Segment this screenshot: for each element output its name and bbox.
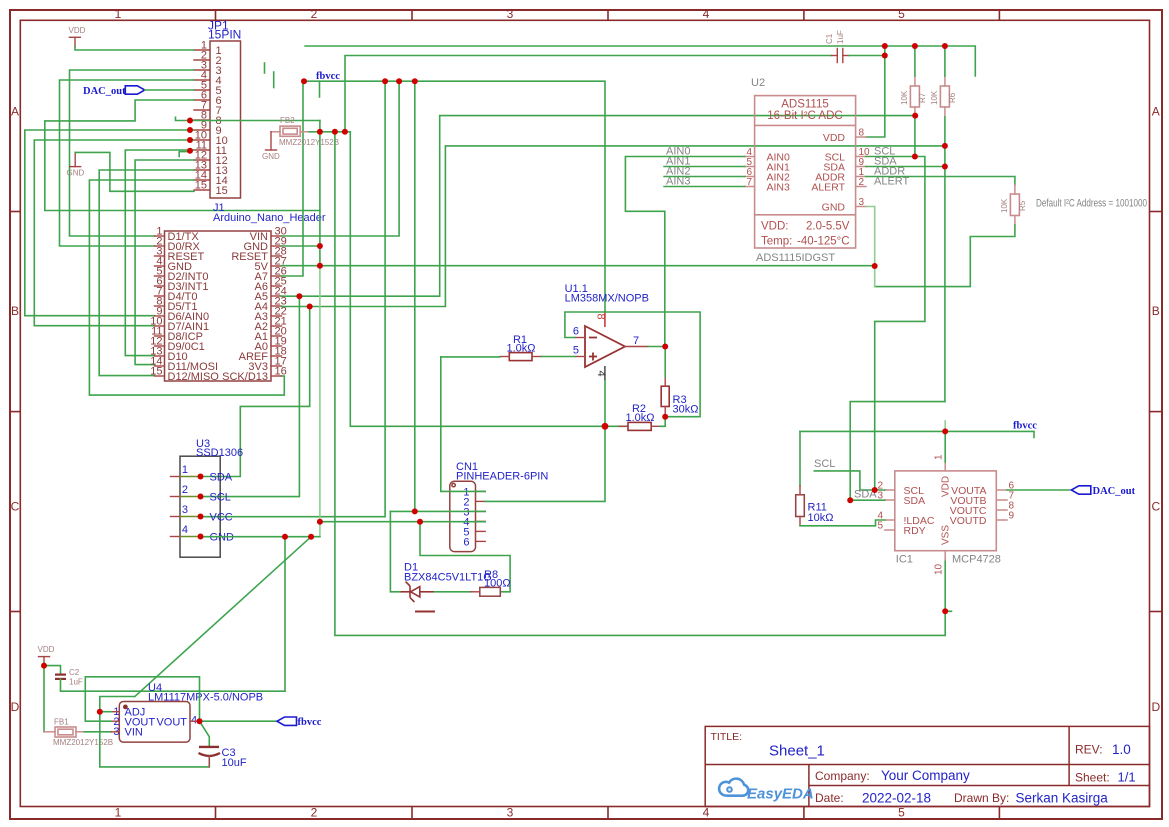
wire JP1 pin6 to GND bus xyxy=(45,100,320,211)
junction GND vertical to CN1 pin4 row xyxy=(317,519,323,525)
IC1 pin10 bottom stub xyxy=(934,551,946,575)
wire R7 top to VDD rail xyxy=(914,46,916,76)
svg-text:6: 6 xyxy=(573,326,579,338)
svg-text:VDD: VDD xyxy=(38,645,55,654)
junction fbvcc IC1 VDD xyxy=(942,428,948,434)
op-amp pin 4 stub xyxy=(604,366,606,380)
net port DAC_out (JP1 pin5) xyxy=(83,86,145,97)
capacitor C2 1uF xyxy=(55,668,83,687)
svg-text:3: 3 xyxy=(859,197,865,208)
wire CN1 pin3 row xyxy=(390,510,485,512)
wire opamp output to R3 top xyxy=(664,347,666,378)
svg-text:B: B xyxy=(11,304,19,318)
svg-text:ADS1115IDGST: ADS1115IDGST xyxy=(756,252,835,264)
junction C1 to VDD vertical xyxy=(882,53,888,59)
capacitor C3 10uF polarized xyxy=(199,747,247,769)
junction U3 GND to C2 branch xyxy=(282,534,288,540)
svg-text:5: 5 xyxy=(573,345,579,357)
wire JP1 pin12 to J1 pin14 (D11/MOSI) xyxy=(135,160,194,365)
svg-text:SDA: SDA xyxy=(904,495,926,507)
svg-text:fbvcc: fbvcc xyxy=(1013,421,1037,432)
svg-text:4: 4 xyxy=(595,371,607,377)
svg-text:10K: 10K xyxy=(930,90,939,105)
stub wire fragment xyxy=(273,72,275,88)
junction R6 VDD rail xyxy=(942,43,948,49)
junction FB2/C1 rail branch xyxy=(342,129,348,135)
wire R6 bottom to SDA row xyxy=(944,117,946,402)
wire C2 bottom to U3 GND branch xyxy=(61,679,286,691)
svg-text:1.0kΩ: 1.0kΩ xyxy=(506,343,535,355)
wire GND vertical x=320 lower xyxy=(319,266,321,537)
svg-text:15: 15 xyxy=(216,185,228,197)
resistor R8 100Ω xyxy=(471,569,511,596)
svg-text:-40-125°C: -40-125°C xyxy=(797,236,850,248)
U2 left pins AIN0-AIN3 xyxy=(666,146,790,194)
svg-text:Company:: Company: xyxy=(815,769,870,783)
junction xyxy=(198,474,204,480)
resistor R1 1.0kΩ xyxy=(500,334,542,361)
svg-text:EasyEDA: EasyEDA xyxy=(747,786,814,803)
wire AIN0 to opamp output xyxy=(625,157,744,347)
junction VDD rail xyxy=(882,43,888,49)
svg-text:LM358MX/NOPB: LM358MX/NOPB xyxy=(565,293,649,305)
svg-text:1.0: 1.0 xyxy=(1112,742,1131,757)
wire R11 bottom to IC1 LDAC xyxy=(800,520,885,526)
svg-text:C2: C2 xyxy=(69,668,80,677)
junction R3 bottom feedback xyxy=(662,414,668,420)
junction xyxy=(198,514,204,520)
wire U4 feedback loop pin2-pin4 xyxy=(85,677,199,721)
wire JP1 pin3 to J1 pin1 (D1/TX) xyxy=(70,70,195,236)
wire VDD down to FB1 xyxy=(43,662,45,732)
svg-text:16-Bit I²C ADC: 16-Bit I²C ADC xyxy=(767,110,842,122)
svg-text:VIN: VIN xyxy=(125,727,143,739)
svg-text:3: 3 xyxy=(507,806,514,820)
wire J1 5V(27) long line xyxy=(282,265,875,267)
wire GND long bus x=335 to bottom rail xyxy=(335,132,945,636)
svg-text:10kΩ: 10kΩ xyxy=(808,512,834,524)
IC1 pin1 top stub xyxy=(934,454,946,471)
svg-text:15PIN: 15PIN xyxy=(208,28,241,42)
svg-text:4: 4 xyxy=(182,524,188,536)
wire fbvcc to U3 VCC xyxy=(201,81,386,517)
wire opamp output to junction xyxy=(648,346,665,348)
svg-text:16: 16 xyxy=(275,366,287,378)
svg-text:MMZ2012Y152B: MMZ2012Y152B xyxy=(279,138,339,147)
svg-text:RDY: RDY xyxy=(904,525,926,537)
junction IC1 SDA xyxy=(847,497,853,503)
wire R8 loop xyxy=(420,522,510,592)
IC1 right pins xyxy=(950,481,1015,527)
svg-text:15: 15 xyxy=(150,366,162,378)
svg-text:DAC_out: DAC_out xyxy=(1093,486,1136,497)
svg-text:1: 1 xyxy=(182,464,188,476)
svg-text:MMZ2012Y152B: MMZ2012Y152B xyxy=(53,738,113,747)
wire IC1 VOUTA to DAC_out xyxy=(1007,489,1070,491)
wire J1 A4 SDA line xyxy=(282,146,945,307)
junction 5V end xyxy=(872,263,878,269)
svg-text:R6: R6 xyxy=(948,92,957,103)
junction SDA line at R6 xyxy=(942,143,948,149)
wire R1 left to + input bus xyxy=(441,356,500,358)
wire U3 GND row xyxy=(201,536,320,538)
junction fbvcc left end xyxy=(301,78,307,84)
svg-text:VDD: VDD xyxy=(823,132,846,144)
svg-text:C1: C1 xyxy=(825,33,834,44)
op-amp input/output stubs xyxy=(575,337,585,339)
U3 pins 1-4 xyxy=(171,464,235,544)
svg-text:2022-02-18: 2022-02-18 xyxy=(862,791,931,806)
resistor R3 30kΩ xyxy=(661,377,698,417)
wire R2 right to R3 bottom xyxy=(660,417,665,427)
junction CN1 pin3 / fbvcc drop xyxy=(412,508,418,514)
svg-text:SSD1306: SSD1306 xyxy=(196,447,243,459)
regulator U4 LM1117MPX-5.0/NOPB xyxy=(111,682,263,742)
svg-text:SCL: SCL xyxy=(210,492,231,504)
svg-text:GND: GND xyxy=(67,169,85,178)
wire top VDD rail y=46 xyxy=(305,46,975,76)
wire fbvcc rail IC1 xyxy=(800,431,1034,437)
junction SCL at U3 branch xyxy=(296,293,302,299)
svg-text:15: 15 xyxy=(195,180,207,192)
svg-text:ADS1115: ADS1115 xyxy=(781,99,829,111)
svg-text:7: 7 xyxy=(633,335,639,347)
wire JP1 pin4 to J1 pin2 (D0/RX) xyxy=(60,80,195,246)
capacitor C1 xyxy=(825,30,849,62)
ground symbol GND (FB2) xyxy=(262,132,280,161)
svg-text:Sheet:: Sheet: xyxy=(1075,771,1110,785)
svg-text:D: D xyxy=(11,700,20,714)
junction fbvcc U3 VCC branch xyxy=(382,78,388,84)
wire ADS SCL to IC1 SCL route xyxy=(866,157,925,490)
svg-text:VDD: VDD xyxy=(69,26,86,35)
svg-text:SDA: SDA xyxy=(210,472,233,484)
wire FB2 to GND bus junctions xyxy=(309,131,350,133)
svg-text:9: 9 xyxy=(1009,511,1015,522)
wire SCL label to IC1 pin2 xyxy=(814,471,885,490)
wire SDA branch to U3 SDA xyxy=(201,307,310,477)
wire VOUT to fbvcc port xyxy=(198,720,276,722)
wire CN1 pin3 to D1 anode xyxy=(390,511,400,591)
svg-text:2.0-5.5V: 2.0-5.5V xyxy=(806,221,850,233)
wire GND vertical x=320 upper xyxy=(319,121,321,266)
junction JP1 pin10 xyxy=(187,137,193,143)
svg-text:Temp:: Temp: xyxy=(761,236,792,248)
svg-text:Sheet_1: Sheet_1 xyxy=(769,743,825,760)
junction CN1 pin4 / R8 loop xyxy=(417,519,423,525)
wire ADJ junction to pin1 xyxy=(100,711,111,713)
svg-text:FB2: FB2 xyxy=(280,116,295,125)
wire J1 GND(29) to GND vertical xyxy=(282,245,320,247)
svg-text:SCK/D13: SCK/D13 xyxy=(222,371,268,383)
junction 5V at GND vertical xyxy=(317,263,323,269)
junction U4 VOUT pin4 xyxy=(197,718,203,724)
JP1 pins 1-15 stubs and numbers xyxy=(194,40,228,198)
wire JP1 pin14 to J1 pin16 route xyxy=(89,180,284,395)
svg-text:VDD:: VDD: xyxy=(761,221,788,233)
svg-text:U2: U2 xyxy=(751,77,765,89)
svg-text:10uF: 10uF xyxy=(222,757,247,769)
svg-text:1: 1 xyxy=(115,806,122,820)
stub right of VSS junction xyxy=(945,610,951,612)
resistor R2 1.0kΩ xyxy=(619,403,660,430)
wire JP1 pin8 to GND vertical xyxy=(190,120,241,122)
svg-text:1: 1 xyxy=(934,454,945,460)
J1 left pins 1-15 xyxy=(150,226,219,384)
svg-text:SCL: SCL xyxy=(814,458,835,470)
svg-text:R5: R5 xyxy=(1018,200,1027,211)
op-amp U1.1 LM358MX/NOPB xyxy=(565,283,649,380)
junction xyxy=(198,534,204,540)
wire ADS GND pin down xyxy=(866,207,875,287)
svg-text:10K: 10K xyxy=(900,90,909,105)
svg-text:3: 3 xyxy=(182,504,188,516)
svg-text:4: 4 xyxy=(703,806,710,820)
svg-text:AIN3: AIN3 xyxy=(767,181,791,193)
connector JP1 15PIN xyxy=(208,19,241,199)
svg-text:REV:: REV: xyxy=(1075,743,1103,757)
wire U3 GND down to C2 rail xyxy=(284,537,286,692)
svg-text:2: 2 xyxy=(311,806,318,820)
svg-text:A: A xyxy=(1152,105,1160,119)
svg-text:1/1: 1/1 xyxy=(1118,770,1136,785)
svg-text:7: 7 xyxy=(746,177,752,188)
wire JP1 pin9 to J1 pin9 (D6/AIN0) xyxy=(25,130,194,316)
svg-text:fbvcc: fbvcc xyxy=(298,717,322,728)
resistor R5 10K xyxy=(1000,185,1027,225)
junction FB2/GND long bus xyxy=(332,129,338,135)
junction J1 GND xyxy=(317,243,323,249)
svg-text:GND: GND xyxy=(262,152,280,161)
wire VOUT diagonal to C3 xyxy=(200,721,210,746)
wire GND to JP1 pin15 xyxy=(75,152,194,191)
svg-text:MCP4728: MCP4728 xyxy=(952,554,1001,566)
junction fbvcc CN1-3 branch xyxy=(412,78,418,84)
svg-text:3: 3 xyxy=(507,7,514,21)
resistor R6 10K xyxy=(930,76,957,117)
svg-text:1uF: 1uF xyxy=(836,30,845,44)
stub wire fragment xyxy=(264,63,266,73)
junction VDD / C2 xyxy=(41,663,47,669)
junction R7 VDD rail xyxy=(912,43,918,49)
junction JP1 pin9 xyxy=(187,127,193,133)
ferrite bead FB2 MMZ2012Y152B xyxy=(271,116,339,147)
svg-text:8: 8 xyxy=(859,128,865,139)
svg-text:8: 8 xyxy=(595,314,607,320)
junction FB2/GND vertical xyxy=(317,129,323,135)
wire R6 top to VDD rail xyxy=(944,46,946,76)
svg-text:2: 2 xyxy=(859,177,865,188)
J1 right pins 30-16 xyxy=(222,226,287,384)
net port DAC_out (IC1) xyxy=(1071,486,1135,497)
wire diagonal GND to U4 ADJ net xyxy=(135,537,311,697)
svg-text:PINHEADER-6PIN: PINHEADER-6PIN xyxy=(456,471,548,483)
IC1 left pins xyxy=(877,481,934,537)
svg-text:FB1: FB1 xyxy=(54,718,69,727)
wire SDA route to IC1 xyxy=(850,402,945,501)
svg-text:1.0kΩ: 1.0kΩ xyxy=(625,412,654,424)
stub below fbvcc label xyxy=(319,81,321,97)
IC IC1 MCP4728 xyxy=(895,471,1001,566)
wire fbvcc rail y=81.2 xyxy=(303,81,605,311)
wire VDD to JP1 pin1 xyxy=(75,47,194,50)
U2 right pins xyxy=(811,128,909,214)
junction opamp output xyxy=(662,344,668,350)
wire C1 rail right part xyxy=(849,55,885,57)
title block frame xyxy=(705,726,1149,806)
resistor R7 10K xyxy=(900,76,927,117)
svg-text:D12/MISO: D12/MISO xyxy=(168,371,220,383)
svg-text:10: 10 xyxy=(934,563,945,575)
junction SCL line at R7 xyxy=(912,113,918,119)
wire U4 ADJ net vertical xyxy=(100,697,210,767)
svg-text:100Ω: 100Ω xyxy=(484,578,511,590)
wire J1 A5 SCL line xyxy=(282,116,916,297)
connector J1 Arduino_Nano_Header xyxy=(165,202,326,381)
junction R2 line inverting bus xyxy=(602,423,609,430)
junction IC1 SCL xyxy=(872,487,878,493)
wire JP1 pin10 to J1 pin10 (D7/AIN1) xyxy=(34,140,194,326)
junction xyxy=(198,494,204,500)
junction ADS SCL pin row xyxy=(912,154,918,160)
junction U3 GND diagonal xyxy=(308,534,314,540)
svg-text:DAC_out: DAC_out xyxy=(83,86,126,97)
wire CN1 pin2 to inverting bus xyxy=(485,380,605,501)
svg-text:Serkan Kasirga: Serkan Kasirga xyxy=(1016,791,1109,806)
svg-text:Default I²C Address = 1001000: Default I²C Address = 1001000 xyxy=(1036,198,1147,210)
wire J1 A7 to fbvcc rail xyxy=(282,81,304,276)
wire fbvcc to IC1 pin1 xyxy=(944,431,946,462)
junction JP1 pin8 xyxy=(187,118,193,124)
wire C1 rail y=55.5 left part xyxy=(345,56,832,132)
ruler column ticks xyxy=(216,10,1000,819)
svg-text:IC1: IC1 xyxy=(896,554,913,566)
wire JP1 pin13 to J1 pin15 (D12/MISO) xyxy=(99,170,194,376)
svg-text:10K: 10K xyxy=(1000,198,1009,213)
op-amp pin 8 stub xyxy=(604,311,606,327)
wire FB1 to U4 VIN xyxy=(84,731,111,733)
svg-text:VCC: VCC xyxy=(210,512,233,524)
stub above fbvcc junction xyxy=(944,421,946,431)
no-connect mark below D1 xyxy=(415,611,435,613)
CN1 pins 1-6 xyxy=(463,486,485,548)
svg-text:6: 6 xyxy=(463,536,469,548)
svg-text:5: 5 xyxy=(898,806,905,820)
svg-text:B: B xyxy=(1152,304,1160,318)
wire DAC_out to JP1 pin5 xyxy=(145,89,194,91)
junction U4 ADJ xyxy=(97,709,103,715)
wire SCL branch to U3 SCL xyxy=(201,296,300,496)
junction IC1 VSS rail xyxy=(942,608,948,614)
svg-text:1uF: 1uF xyxy=(69,678,83,687)
junction fbvcc VIN branch xyxy=(396,78,402,84)
svg-text:VOUT: VOUT xyxy=(156,717,187,729)
wire vertical to ADS VDD xyxy=(866,46,885,137)
svg-text:Arduino_Nano_Header: Arduino_Nano_Header xyxy=(213,212,326,224)
svg-text:TITLE:: TITLE: xyxy=(711,731,743,743)
wire fbvcc to CN1 pin3 row xyxy=(414,81,416,511)
wire JP1 pin11 to J1 pin13 (D10) xyxy=(125,150,194,356)
wire CN1 pin1 to opamp + input bus xyxy=(441,357,485,492)
svg-text:1: 1 xyxy=(115,7,122,21)
wire AIN3 stub xyxy=(664,186,745,188)
ferrite bead FB1 MMZ2012Y152B xyxy=(44,718,113,748)
svg-text:ALERT: ALERT xyxy=(811,181,845,193)
junction JP1 pin11 xyxy=(187,148,193,154)
wire JP1 pin11 hook xyxy=(179,152,190,157)
svg-text:A: A xyxy=(11,105,19,119)
wire CN1 pin4 row xyxy=(320,521,485,523)
svg-text:Your Company: Your Company xyxy=(881,768,970,783)
IC U3 SSD1306 xyxy=(180,438,243,557)
wire R1 right to pin5 xyxy=(542,356,576,358)
power symbol VDD (JP1 pin1) xyxy=(69,26,86,47)
wire D1 to R8 xyxy=(435,591,471,593)
ruler row ticks xyxy=(10,212,1162,612)
junction ADS SDA pin row xyxy=(942,164,948,170)
svg-text:fbvcc: fbvcc xyxy=(316,71,340,82)
svg-text:C: C xyxy=(1151,500,1160,514)
svg-text:2: 2 xyxy=(182,484,188,496)
svg-text:2: 2 xyxy=(311,7,318,21)
EasyEDA logo xyxy=(719,779,748,796)
power symbol VDD (U4) xyxy=(38,645,55,662)
svg-text:R7: R7 xyxy=(918,92,927,103)
junction SDA at U3 branch xyxy=(307,304,313,310)
ground symbol GND (JP1 pin15) xyxy=(67,152,85,177)
svg-text:VOUTD: VOUTD xyxy=(950,515,987,527)
svg-text:BZX84C5V1LT1G: BZX84C5V1LT1G xyxy=(404,572,492,584)
svg-text:Date:: Date: xyxy=(815,791,844,805)
wire VDD to C2 top xyxy=(44,666,61,674)
ruler column numbers xyxy=(115,7,906,820)
wire R7 bottom to SCL row xyxy=(914,117,916,157)
svg-text:5: 5 xyxy=(877,521,883,532)
connector CN1 PINHEADER-6PIN xyxy=(450,461,549,552)
svg-text:C: C xyxy=(11,500,20,514)
svg-text:30kΩ: 30kΩ xyxy=(673,404,699,416)
wire AIN1 stub xyxy=(664,166,745,168)
ruler row letters xyxy=(11,105,1161,714)
svg-text:LM1117MPX-5.0/NOPB: LM1117MPX-5.0/NOPB xyxy=(148,692,263,704)
wire opamp feedback loop pin6 xyxy=(565,312,700,417)
svg-text:5: 5 xyxy=(898,7,905,21)
wire fbvcc to R11 top xyxy=(799,431,801,486)
wire R5 bottom to ADS GND net xyxy=(875,225,1015,287)
IC U2 ADS1115 xyxy=(751,77,856,264)
wire JP1 pin8 hook xyxy=(176,117,191,120)
wire SDA to IC1 pin3 xyxy=(850,499,885,501)
resistor R11 10kΩ xyxy=(796,486,834,526)
zener diode D1 BZX84C5V1LT1G xyxy=(401,562,492,603)
wire ADS SDA pin row xyxy=(866,166,945,168)
svg-text:D: D xyxy=(1151,700,1160,714)
wire AIN2 stub xyxy=(664,176,745,178)
wire inverting bus x=350 to R2 xyxy=(350,132,628,427)
net port fbvcc (U4) xyxy=(277,717,322,728)
svg-text:4: 4 xyxy=(703,7,710,21)
svg-text:Drawn By:: Drawn By: xyxy=(954,791,1009,805)
wire J1 VIN to fbvcc rail xyxy=(282,81,400,236)
svg-text:GND: GND xyxy=(822,201,846,213)
svg-text:VSS: VSS xyxy=(941,525,952,545)
wire ADS ADDR to R5 xyxy=(866,177,1015,186)
